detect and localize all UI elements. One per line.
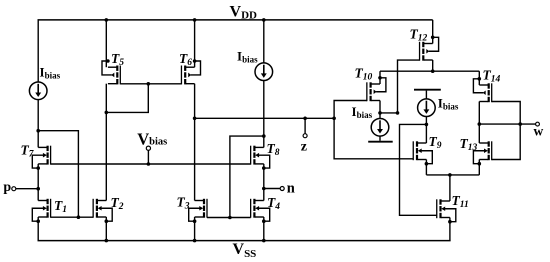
wire T8 source to n [263, 164, 265, 189]
node n junction [262, 187, 266, 191]
T14 label [483, 68, 501, 85]
wire T11 source to VSS [449, 218, 451, 241]
node z tap [303, 117, 307, 121]
wire VDD to T6 source [194, 20, 196, 67]
wire T3-T4 gate bus [207, 217, 251, 219]
node T6 source on VDD [193, 18, 197, 22]
Vbias bus [51, 163, 251, 165]
wire T5-T6 gate bus [120, 83, 181, 85]
Ibias-2 label [237, 48, 258, 64]
node T3 source on VSS [193, 239, 197, 243]
wire T1-T2 gate bus [51, 216, 94, 218]
VSS label [233, 241, 257, 260]
terminal p [12, 187, 38, 191]
wire n to T4 drain [263, 189, 265, 201]
T1 label [54, 198, 67, 215]
T12 drain bus [380, 70, 479, 72]
wire T10 drain down [379, 101, 381, 119]
node Ibias-2/T8 tap [262, 134, 266, 138]
node z-bus corner [332, 117, 336, 121]
current source Ibias-2 [255, 63, 273, 81]
svg-text:n: n [287, 180, 295, 196]
node Vbias on bus [147, 162, 151, 166]
z bus [195, 117, 335, 119]
w line [479, 123, 535, 125]
wire T6 drain down to T3 [194, 84, 196, 201]
wire Ibias-2 to T8 drain [263, 80, 265, 147]
T9-T13 source bus [426, 174, 479, 176]
transistor T10 [366, 76, 386, 101]
T5 label [111, 51, 124, 68]
wire T5 drain down [105, 84, 107, 201]
Ibias-4 label [352, 104, 373, 120]
T8 label [267, 141, 280, 158]
transistor T7 [32, 146, 51, 170]
wire T13 drain up to w [478, 124, 480, 143]
node T12 gate net join [396, 111, 400, 115]
wire z to T10 gate [334, 101, 367, 119]
z label [301, 140, 307, 155]
wire VDD to T5 source [105, 20, 107, 67]
Vbias label [137, 129, 167, 148]
transistor T12 [419, 36, 439, 61]
wire Ibias-4 to ground [379, 136, 381, 141]
node w on drain column [478, 122, 482, 126]
node Ibias-2 on VDD [262, 18, 266, 22]
wire VDD to Ibias-2 [263, 20, 265, 63]
wire T3 source to VSS [194, 217, 196, 241]
T4 label [267, 195, 280, 212]
svg-text:z: z [301, 140, 307, 155]
node T3/T4 gate junction [228, 216, 232, 220]
node T12 drain on bus [431, 69, 435, 73]
node T10 drain [378, 111, 382, 115]
node T5/T6 gate bus [147, 82, 151, 86]
current source Ibias-4 [371, 119, 389, 137]
Vbias terminal [146, 146, 150, 164]
T3 label [177, 195, 190, 212]
T11 label [452, 193, 469, 210]
T9 label [429, 134, 442, 151]
wire T14 gate to w [492, 102, 521, 125]
T10 label [355, 66, 373, 83]
current source Ibias-3 [418, 99, 436, 117]
w label [534, 123, 544, 138]
wire bus corner to T14 source [478, 71, 480, 85]
Ibias-L label [40, 65, 61, 81]
ground bar [368, 141, 393, 143]
wire T13 gate to w [492, 124, 521, 159]
wire mirror-gate tap right [230, 136, 264, 217]
T13 label [460, 136, 478, 153]
transistor T8 [250, 146, 270, 170]
wire T12 drain to bus [432, 60, 434, 71]
T2 label [111, 195, 124, 212]
T7 label [21, 143, 35, 160]
VDD rail [38, 19, 433, 21]
n label [287, 180, 295, 196]
node z-bus tap [193, 117, 197, 121]
wire T13 source down [478, 160, 480, 175]
wire Ibias-3 to T9 drain [425, 116, 427, 143]
wire T12 gate net [398, 60, 420, 113]
node T5 source on VDD [105, 18, 109, 22]
node p junction [36, 187, 40, 191]
wire p to T1 drain [37, 189, 39, 201]
p label [3, 180, 11, 195]
T6 label [179, 51, 192, 68]
wire T5 drain to gate bus [106, 84, 148, 113]
node T5 drain tie [105, 111, 109, 115]
transistor T14 [473, 77, 492, 102]
node T11 gate net tap [425, 123, 429, 127]
svg-text:p: p [3, 180, 11, 195]
transistor T1 [32, 199, 51, 223]
VDD label [230, 4, 258, 22]
wire mirror-gate tap [38, 131, 78, 218]
wire VDD corner to T12 source [432, 20, 434, 44]
Ibias-3 label [438, 96, 459, 112]
transistor T11 [436, 199, 456, 223]
wire Ibias-L to T7 drain [37, 99, 39, 147]
wire T4 source to VSS [263, 217, 265, 241]
transistor T13 [473, 141, 492, 165]
svg-text:w: w [534, 123, 544, 138]
transistor T4 [250, 199, 270, 223]
node T2 source on VSS [105, 239, 109, 243]
node source bus junction [448, 173, 452, 177]
wire T11 gate net [400, 124, 437, 215]
transistor T2 [93, 199, 113, 223]
wire T10 drain to T12 gate net [380, 112, 398, 114]
wire T14 drain down to w [478, 102, 480, 125]
VSS rail [38, 240, 451, 242]
supply bar [414, 90, 441, 99]
T12 label [410, 27, 428, 44]
node w gate column [518, 122, 522, 126]
transistor T5 [102, 59, 121, 84]
wire T10 source to bus [379, 71, 381, 84]
node T4 source on VSS [262, 239, 266, 243]
wire T7 source to p [37, 164, 39, 189]
current source Ibias-L [29, 82, 47, 100]
wire T9 source down [425, 160, 427, 175]
node gate bus junction [77, 215, 81, 219]
terminal n [264, 187, 284, 191]
wire T2 source to VSS [105, 217, 107, 241]
wire T11 drain up [449, 175, 451, 201]
wire T1 source to VSS [37, 217, 39, 241]
terminal w [536, 122, 540, 126]
transistor T6 [181, 59, 201, 84]
wire VDD to Ibias-L [37, 20, 39, 82]
wire z to T9 gate [334, 118, 413, 159]
transistor T3 [189, 199, 208, 223]
transistor T9 [413, 141, 433, 165]
node Ibias-L/T7 [36, 129, 40, 133]
terminal z [303, 118, 307, 137]
